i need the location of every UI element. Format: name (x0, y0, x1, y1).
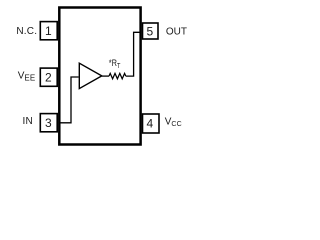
pin 3 box (40, 114, 57, 132)
pin 2 box (40, 68, 57, 86)
svg-text:4: 4 (147, 117, 154, 131)
resistor RT zigzag (109, 73, 126, 78)
svg-text:1: 1 (45, 24, 52, 38)
svg-text:5: 5 (147, 24, 154, 38)
pin 1 box (40, 22, 57, 40)
wire buffer output to resistor (102, 75, 109, 77)
svg-text:N.C.: N.C. (16, 26, 37, 37)
svg-text:2: 2 (45, 71, 52, 85)
svg-text:VCC: VCC (165, 117, 182, 128)
svg-text:IN: IN (23, 116, 33, 127)
IC body U1 (59, 8, 140, 145)
pin 5 box (143, 23, 159, 39)
svg-text:VEE: VEE (18, 70, 36, 82)
svg-text:3: 3 (45, 116, 52, 130)
wire resistor to pin 5 (126, 32, 140, 76)
svg-text:OUT: OUT (166, 26, 187, 37)
wire IN: pin 3 to buffer input (60, 77, 79, 123)
pin 4 box (143, 114, 160, 133)
buffer amplifier A1 (79, 63, 102, 88)
svg-text:*RT: *RT (109, 58, 121, 70)
